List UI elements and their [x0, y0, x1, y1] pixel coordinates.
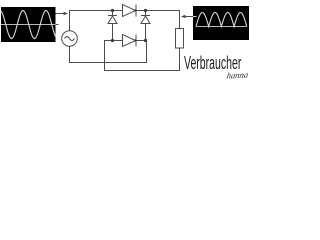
diode D3 (right vertical): [145, 11, 147, 16]
AC source G1 circle: [62, 31, 78, 47]
wire: lower return rail: [104, 70, 180, 72]
resistor load: [176, 29, 184, 49]
wire: source top lead: [69, 11, 71, 32]
output waveform axis: [196, 26, 247, 28]
circuit strokes: [62, 5, 184, 72]
signature: [226, 69, 249, 80]
wire: load bottom lead: [179, 48, 181, 72]
node junction dots: [111, 9, 147, 42]
wire: left rail (crosses bottom rail, no connection): [104, 40, 106, 71]
input axis tick outside box: [56, 24, 59, 26]
output axis stub inside box: [193, 16, 197, 18]
wire: source bottom lead: [69, 46, 71, 62]
wire: top rail left: [69, 10, 123, 12]
output rectified waveform: [196, 13, 247, 27]
diode D2 (left vertical): [112, 11, 114, 16]
input waveform box: [1, 7, 56, 42]
diode D1 (top, inline): [123, 5, 136, 17]
AC source sine symbol: [65, 37, 75, 41]
wire: top rail right: [136, 10, 180, 12]
arrow from output box to wire: [181, 15, 193, 19]
wire: right riser bottom-rail to mid-rail: [146, 41, 148, 64]
wire: load top lead: [179, 10, 181, 29]
diode D4 (middle, inline): [123, 35, 136, 47]
input waveform axis: [1, 24, 56, 26]
input sine wave: [1, 11, 56, 39]
wire: mid rail right: [136, 40, 147, 42]
wire: bottom rail: [69, 62, 147, 64]
wire: mid rail left: [105, 40, 123, 42]
arrow from input box to wire: [56, 12, 69, 16]
output waveform box: [193, 6, 249, 40]
label Verbraucher: [184, 53, 241, 74]
